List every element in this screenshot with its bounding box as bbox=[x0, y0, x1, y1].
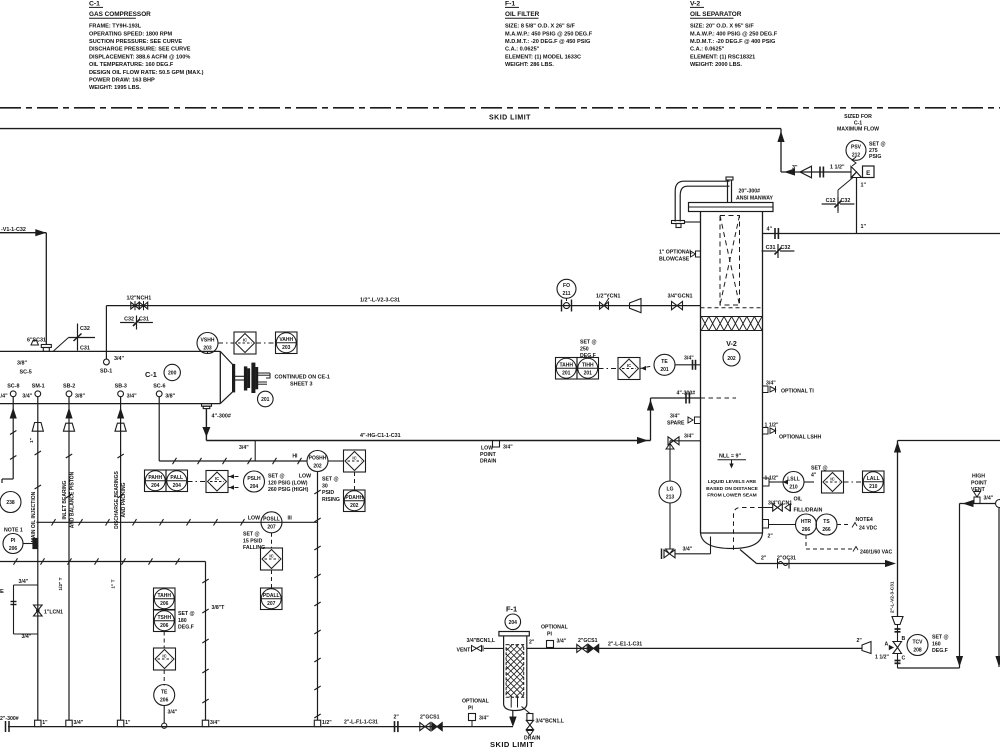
svg-text:1/2"-L-V2-3-C31: 1/2"-L-V2-3-C31 bbox=[360, 298, 400, 304]
svg-text:3/8"T: 3/8"T bbox=[212, 605, 226, 611]
svg-text:206: 206 bbox=[160, 697, 169, 703]
svg-text:SET @: SET @ bbox=[869, 142, 886, 148]
svg-text:3/4"BCN1,L: 3/4"BCN1,L bbox=[536, 719, 565, 725]
svg-text:TAHH: TAHH bbox=[157, 593, 171, 599]
svg-text:2": 2" bbox=[761, 556, 767, 562]
svg-text:C-1: C-1 bbox=[89, 0, 100, 7]
svg-text:PI: PI bbox=[11, 538, 16, 544]
svg-text:M.A.W.P.: 450 PSIG @ 250 DEG.: M.A.W.P.: 450 PSIG @ 250 DEG.F bbox=[505, 31, 593, 37]
svg-text:AND BALANCE PISTON: AND BALANCE PISTON bbox=[69, 471, 75, 528]
svg-text:266: 266 bbox=[822, 527, 831, 533]
svg-text:RISING: RISING bbox=[322, 497, 340, 503]
svg-text:SM-1: SM-1 bbox=[32, 383, 45, 389]
svg-text:GAS COMPRESSOR: GAS COMPRESSOR bbox=[89, 11, 151, 18]
svg-text:VSHH: VSHH bbox=[201, 337, 215, 343]
svg-text:260 PSIG (HIGH): 260 PSIG (HIGH) bbox=[268, 487, 309, 493]
svg-text:202: 202 bbox=[727, 356, 736, 362]
svg-text:C-1: C-1 bbox=[145, 370, 157, 379]
svg-text:1 1/2": 1 1/2" bbox=[875, 655, 890, 661]
svg-text:BASED ON DISTANCE: BASED ON DISTANCE bbox=[706, 486, 759, 492]
svg-text:ELEMENT: (1) RSC18321: ELEMENT: (1) RSC18321 bbox=[690, 54, 755, 60]
svg-text:POINT: POINT bbox=[480, 452, 497, 458]
svg-text:DISCHARGE BEARINGS: DISCHARGE BEARINGS bbox=[114, 470, 120, 528]
svg-text:204: 204 bbox=[173, 483, 182, 489]
svg-text:LG: LG bbox=[667, 486, 674, 492]
svg-text:213: 213 bbox=[666, 494, 675, 500]
svg-text:2"-L-V2-3-C31: 2"-L-V2-3-C31 bbox=[890, 581, 896, 613]
svg-text:202: 202 bbox=[313, 463, 322, 469]
svg-text:PSV: PSV bbox=[851, 145, 862, 151]
svg-text:207: 207 bbox=[267, 525, 276, 531]
svg-text:3/4": 3/4" bbox=[22, 634, 32, 640]
svg-text:1/2"NCH1: 1/2"NCH1 bbox=[127, 296, 152, 302]
svg-text:DRAIN: DRAIN bbox=[480, 459, 497, 465]
svg-text:HTR: HTR bbox=[801, 519, 812, 525]
svg-text:TSHH: TSHH bbox=[157, 615, 171, 621]
svg-text:4"-300#: 4"-300# bbox=[212, 414, 231, 420]
svg-text:SC-5: SC-5 bbox=[20, 370, 32, 376]
svg-text:210: 210 bbox=[789, 484, 798, 490]
svg-text:OIL TEMPERATURE: 160 DEG.F: OIL TEMPERATURE: 160 DEG.F bbox=[89, 62, 174, 68]
svg-text:MAXIMUM FLOW: MAXIMUM FLOW bbox=[837, 127, 879, 133]
svg-text:C32: C32 bbox=[124, 317, 134, 323]
svg-text:BLOWCASE: BLOWCASE bbox=[659, 256, 690, 262]
svg-text:LIQUID LEVELS ARE: LIQUID LEVELS ARE bbox=[708, 479, 757, 485]
svg-text:203: 203 bbox=[203, 345, 212, 351]
svg-text:SC-6: SC-6 bbox=[153, 383, 165, 389]
svg-text:NOTE4: NOTE4 bbox=[856, 517, 873, 523]
svg-text:LSLL: LSLL bbox=[787, 476, 800, 482]
svg-text:VENT: VENT bbox=[971, 487, 986, 493]
svg-text:275: 275 bbox=[869, 148, 878, 154]
svg-text:F-1: F-1 bbox=[506, 605, 517, 614]
svg-text:OPTIONAL: OPTIONAL bbox=[541, 625, 569, 631]
svg-text:3/4": 3/4" bbox=[19, 579, 29, 585]
svg-text:3/4": 3/4" bbox=[239, 445, 249, 451]
svg-text:250: 250 bbox=[580, 346, 589, 352]
svg-text:3/4"BCN1,L: 3/4"BCN1,L bbox=[467, 638, 496, 644]
svg-text:211: 211 bbox=[562, 291, 570, 297]
svg-text:206: 206 bbox=[160, 623, 169, 629]
svg-text:2"-300#: 2"-300# bbox=[0, 716, 19, 722]
svg-text:1/4": 1/4" bbox=[0, 393, 8, 399]
svg-text:VAHH: VAHH bbox=[279, 337, 293, 343]
svg-text:3": 3" bbox=[792, 165, 798, 171]
svg-text:V-2: V-2 bbox=[726, 341, 737, 348]
svg-text:30: 30 bbox=[322, 483, 328, 489]
svg-text:2"-L-E1-1-C31: 2"-L-E1-1-C31 bbox=[608, 642, 642, 648]
svg-text:POWER DRAW: 163 BHP: POWER DRAW: 163 BHP bbox=[89, 78, 155, 84]
svg-text:1": 1" bbox=[861, 224, 867, 230]
svg-text:203: 203 bbox=[282, 345, 291, 351]
svg-text:HIGH: HIGH bbox=[972, 474, 985, 480]
svg-text:4": 4" bbox=[767, 227, 773, 233]
svg-text:1" T: 1" T bbox=[111, 579, 117, 588]
svg-text:OIL: OIL bbox=[794, 497, 803, 503]
svg-text:PDALL: PDALL bbox=[263, 593, 280, 599]
svg-text:DISCHARGE PRESSURE: SEE CURVE: DISCHARGE PRESSURE: SEE CURVE bbox=[89, 47, 191, 53]
svg-text:IC: IC bbox=[243, 338, 247, 343]
svg-text:SC-8: SC-8 bbox=[7, 383, 19, 389]
svg-text:2": 2" bbox=[529, 640, 535, 646]
svg-text:2": 2" bbox=[394, 715, 400, 721]
svg-text:3/8": 3/8" bbox=[17, 361, 27, 367]
svg-text:MAIN OIL INJECTION: MAIN OIL INJECTION bbox=[31, 491, 37, 542]
svg-text:207: 207 bbox=[267, 601, 276, 607]
svg-text:200: 200 bbox=[168, 371, 177, 377]
svg-text:4"-HG-C1-1-C31: 4"-HG-C1-1-C31 bbox=[360, 433, 401, 439]
svg-text:206: 206 bbox=[160, 601, 169, 607]
svg-text:1" OPTIONAL: 1" OPTIONAL bbox=[659, 250, 693, 256]
svg-text:120 PSIG (LOW): 120 PSIG (LOW) bbox=[268, 480, 308, 486]
svg-text:OPTIONAL TI: OPTIONAL TI bbox=[781, 388, 814, 394]
svg-text:TCV: TCV bbox=[913, 639, 924, 645]
svg-text:201: 201 bbox=[584, 371, 593, 377]
svg-text:15 PSID: 15 PSID bbox=[243, 538, 263, 544]
svg-text:202: 202 bbox=[350, 503, 359, 509]
svg-text:OIL FILTER: OIL FILTER bbox=[505, 11, 540, 18]
svg-text:C.A.: 0.0625": C.A.: 0.0625" bbox=[505, 47, 540, 53]
svg-text:WEIGHT: 1995 LBS.: WEIGHT: 1995 LBS. bbox=[89, 85, 141, 91]
svg-text:1/2" T: 1/2" T bbox=[58, 577, 64, 590]
svg-text:INLET BEARING: INLET BEARING bbox=[62, 480, 68, 519]
svg-text:TAHH: TAHH bbox=[559, 362, 573, 368]
svg-text:SKID LIMIT: SKID LIMIT bbox=[489, 115, 531, 122]
svg-text:3/4"GCN1: 3/4"GCN1 bbox=[668, 294, 693, 300]
svg-text:3/4": 3/4" bbox=[984, 496, 994, 502]
svg-text:SPARE: SPARE bbox=[667, 420, 685, 426]
svg-text:SIZED FOR: SIZED FOR bbox=[844, 114, 872, 120]
svg-text:AND PACKING: AND PACKING bbox=[121, 482, 127, 517]
svg-text:OPERATING SPEED: 1800 RPM: OPERATING SPEED: 1800 RPM bbox=[89, 31, 173, 37]
svg-text:POINT: POINT bbox=[971, 480, 988, 486]
svg-text:201: 201 bbox=[261, 397, 270, 403]
svg-text:3/4": 3/4" bbox=[168, 710, 178, 716]
svg-text:SB-2: SB-2 bbox=[63, 383, 75, 389]
svg-text:FROM LOWER SEAM: FROM LOWER SEAM bbox=[707, 493, 756, 499]
svg-text:LALL: LALL bbox=[867, 476, 880, 482]
svg-text:266: 266 bbox=[802, 527, 811, 533]
svg-text:201: 201 bbox=[562, 371, 571, 377]
svg-text:E: E bbox=[0, 589, 4, 595]
svg-text:SUCTION PRESSURE: SEE CURVE: SUCTION PRESSURE: SEE CURVE bbox=[89, 39, 182, 45]
svg-text:1": 1" bbox=[125, 720, 131, 726]
svg-text:180: 180 bbox=[178, 618, 187, 624]
svg-text:240/1/60 VAC: 240/1/60 VAC bbox=[860, 550, 892, 556]
svg-text:OPTIONAL: OPTIONAL bbox=[462, 699, 490, 705]
svg-text:C12: C12 bbox=[826, 198, 836, 204]
svg-text:3/8": 3/8" bbox=[165, 393, 175, 399]
svg-text:2": 2" bbox=[857, 638, 863, 644]
svg-text:TS: TS bbox=[823, 519, 830, 525]
svg-text:M.D.M.T.: -20 DEG.F @ 400 PSI: M.D.M.T.: -20 DEG.F @ 400 PSIG bbox=[690, 39, 775, 45]
svg-text:3/4": 3/4" bbox=[683, 547, 693, 553]
svg-text:238: 238 bbox=[6, 500, 15, 506]
svg-text:C: C bbox=[902, 656, 906, 662]
svg-text:2": 2" bbox=[768, 534, 774, 540]
svg-text:M.D.M.T.: -20 DEG.F @ 450 PSI: M.D.M.T.: -20 DEG.F @ 450 PSIG bbox=[505, 39, 590, 45]
svg-text:TIHH: TIHH bbox=[582, 362, 594, 368]
svg-text:3/4": 3/4" bbox=[479, 716, 489, 722]
svg-text:C31: C31 bbox=[766, 245, 776, 251]
svg-text:2"GCS1: 2"GCS1 bbox=[420, 715, 440, 721]
svg-text:NOTE 1: NOTE 1 bbox=[4, 528, 23, 534]
svg-text:SET @: SET @ bbox=[932, 635, 949, 641]
svg-text:PSLH: PSLH bbox=[247, 476, 261, 482]
svg-text:FRAME: TY9H-193L: FRAME: TY9H-193L bbox=[89, 24, 142, 30]
svg-text:SET @: SET @ bbox=[268, 474, 285, 480]
svg-text:TE: TE bbox=[161, 689, 168, 695]
svg-text:PI: PI bbox=[547, 632, 552, 638]
svg-text:3/4": 3/4" bbox=[684, 356, 694, 362]
svg-text:1": 1" bbox=[861, 183, 867, 189]
svg-text:208: 208 bbox=[913, 647, 922, 653]
svg-text:3/4": 3/4" bbox=[670, 414, 680, 420]
svg-text:SET @: SET @ bbox=[243, 532, 260, 538]
svg-text:PSIG: PSIG bbox=[869, 154, 881, 160]
svg-text:3/4": 3/4" bbox=[503, 445, 513, 451]
svg-text:WEIGHT: 2000 LBS.: WEIGHT: 2000 LBS. bbox=[690, 62, 742, 68]
svg-text:3/8": 3/8" bbox=[75, 393, 85, 399]
svg-text:1/2": 1/2" bbox=[322, 720, 332, 726]
svg-text:PDAHH: PDAHH bbox=[345, 495, 363, 501]
svg-text:1": 1" bbox=[42, 720, 48, 726]
svg-text:212: 212 bbox=[852, 153, 861, 159]
svg-text:DISPLACEMENT: 388.6 ACFM @ 10: DISPLACEMENT: 388.6 ACFM @ 100% bbox=[89, 54, 190, 60]
svg-text:24 VDC: 24 VDC bbox=[859, 526, 877, 532]
svg-text:WEIGHT: 286 LBS.: WEIGHT: 286 LBS. bbox=[505, 62, 554, 68]
svg-text:C.A.: 0.0625": C.A.: 0.0625" bbox=[690, 47, 725, 53]
svg-text:FO: FO bbox=[563, 283, 570, 289]
svg-text:SD-1: SD-1 bbox=[100, 369, 112, 375]
svg-text:OIL SEPARATOR: OIL SEPARATOR bbox=[690, 11, 742, 18]
svg-text:IC: IC bbox=[215, 476, 219, 481]
svg-text:TE: TE bbox=[661, 359, 668, 365]
svg-text:201: 201 bbox=[660, 367, 669, 373]
svg-text:C32: C32 bbox=[80, 326, 90, 332]
svg-text:A: A bbox=[885, 642, 889, 648]
svg-text:IC: IC bbox=[269, 554, 273, 559]
svg-text:2"GCS1: 2"GCS1 bbox=[578, 638, 598, 644]
svg-text:204: 204 bbox=[151, 483, 160, 489]
svg-text:M.A.W.P.: 400 PSIG @ 250 DEG.: M.A.W.P.: 400 PSIG @ 250 DEG.F bbox=[690, 31, 778, 37]
svg-text:SET @: SET @ bbox=[178, 611, 195, 617]
svg-text:SHEET 3: SHEET 3 bbox=[290, 381, 312, 387]
svg-text:204: 204 bbox=[250, 484, 259, 490]
svg-text:SET @: SET @ bbox=[580, 340, 597, 346]
svg-text:1"LCN1: 1"LCN1 bbox=[44, 610, 63, 616]
svg-text:210: 210 bbox=[869, 484, 878, 490]
svg-text:HI: HI bbox=[292, 454, 298, 460]
svg-text:IC: IC bbox=[627, 363, 631, 368]
svg-text:SIZE: 20" O.D. X 95" S/F: SIZE: 20" O.D. X 95" S/F bbox=[690, 24, 754, 30]
svg-text:ANSI MANWAY: ANSI MANWAY bbox=[736, 196, 774, 202]
svg-text:OPTIONAL LSHH: OPTIONAL LSHH bbox=[779, 435, 822, 441]
svg-text:SIZE: 8 5/8" O.D. X 26" S/F: SIZE: 8 5/8" O.D. X 26" S/F bbox=[505, 24, 576, 30]
svg-text:4"-300#: 4"-300# bbox=[677, 391, 696, 397]
svg-text:PI: PI bbox=[468, 706, 473, 712]
svg-text:3/4": 3/4" bbox=[127, 393, 137, 399]
svg-text:204: 204 bbox=[509, 620, 518, 626]
svg-text:ELEMENT: (1) MODEL 1633C: ELEMENT: (1) MODEL 1633C bbox=[505, 54, 581, 60]
svg-text:POSLL: POSLL bbox=[263, 517, 280, 523]
svg-text:2"-L-F1-1-C31: 2"-L-F1-1-C31 bbox=[344, 720, 378, 726]
svg-text:160: 160 bbox=[932, 641, 941, 647]
svg-text:DEG.F: DEG.F bbox=[178, 625, 194, 631]
svg-text:IC: IC bbox=[352, 456, 356, 461]
svg-text:PAHH: PAHH bbox=[148, 475, 162, 481]
svg-text:V-2: V-2 bbox=[690, 0, 700, 7]
svg-text:3/4": 3/4" bbox=[22, 393, 32, 399]
svg-text:DESIGN OIL FLOW RATE: 50.5 GP: DESIGN OIL FLOW RATE: 50.5 GPM (MAX.) bbox=[89, 70, 204, 76]
svg-text:206: 206 bbox=[9, 546, 18, 552]
svg-text:DEG.F: DEG.F bbox=[932, 648, 948, 654]
svg-text:C-1: C-1 bbox=[854, 120, 862, 126]
svg-text:3/4": 3/4" bbox=[210, 720, 220, 726]
svg-text:F-1: F-1 bbox=[505, 0, 515, 7]
svg-text:POSHH: POSHH bbox=[309, 455, 327, 461]
svg-text:1": 1" bbox=[29, 438, 35, 443]
svg-text:PALL: PALL bbox=[170, 475, 183, 481]
svg-text:SB-3: SB-3 bbox=[115, 383, 127, 389]
svg-text:1 1/2": 1 1/2" bbox=[830, 165, 845, 171]
svg-text:III: III bbox=[288, 515, 293, 521]
svg-text:C31: C31 bbox=[80, 346, 90, 352]
svg-text:NLL = 9": NLL = 9" bbox=[719, 454, 742, 460]
svg-text:20"-300#: 20"-300# bbox=[739, 189, 761, 195]
svg-text:3/4": 3/4" bbox=[684, 434, 694, 440]
svg-text:3/4": 3/4" bbox=[74, 720, 84, 726]
svg-text:CONTINUED ON CE-1: CONTINUED ON CE-1 bbox=[275, 374, 330, 380]
svg-text:LOW: LOW bbox=[481, 446, 493, 452]
svg-text:LOW: LOW bbox=[299, 474, 311, 480]
svg-text:IC: IC bbox=[830, 477, 834, 482]
svg-text:E: E bbox=[866, 170, 870, 177]
svg-text:LOW: LOW bbox=[248, 515, 260, 521]
svg-text:PSID: PSID bbox=[322, 490, 334, 496]
svg-text:VENT: VENT bbox=[457, 648, 472, 654]
svg-text:IC: IC bbox=[162, 654, 166, 659]
svg-text:2"OC31: 2"OC31 bbox=[777, 556, 796, 562]
svg-text:DRAIN: DRAIN bbox=[524, 736, 541, 742]
svg-text:3/4": 3/4" bbox=[557, 639, 567, 645]
svg-text:3/4": 3/4" bbox=[114, 356, 124, 362]
svg-text:FILL/DRAIN: FILL/DRAIN bbox=[794, 508, 823, 514]
svg-text:SET @: SET @ bbox=[322, 477, 339, 483]
svg-text:4": 4" bbox=[811, 472, 817, 478]
